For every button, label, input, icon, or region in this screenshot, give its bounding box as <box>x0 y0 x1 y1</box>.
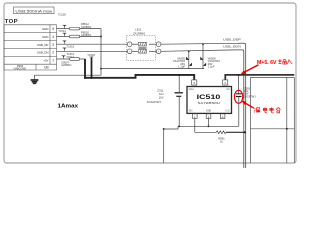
capacitor C581 <box>236 75 256 126</box>
regulator IC510 <box>187 87 232 114</box>
wire +5V thick bus (left) <box>85 59 194 80</box>
note box USB:500mA max <box>14 7 55 14</box>
ferrite bead FB502 <box>69 30 91 37</box>
node R to vertical <box>244 131 246 133</box>
svg-text:4: 4 <box>52 35 54 39</box>
choke coil upper <box>139 42 147 46</box>
pad circle right lower <box>156 49 161 54</box>
wire GND drop to frame <box>163 129 165 163</box>
svg-text:USB_DDN: USB_DDN <box>223 44 241 48</box>
annotation red text M+5.6V input <box>257 59 292 66</box>
node C511 bus tap <box>178 74 180 76</box>
wire USB_DP row <box>57 42 239 45</box>
svg-text:1.1pF: 1.1pF <box>208 65 215 69</box>
wire pin1 (ON) down to resistor line <box>194 119 196 133</box>
svg-text:TL515: TL515 <box>67 45 75 49</box>
wire +5.6V thick bus (right) <box>225 75 294 80</box>
svg-text:1Amax: 1Amax <box>58 103 79 109</box>
svg-text:C511: C511 <box>157 89 164 93</box>
node TL503 junction <box>90 77 92 79</box>
node GND rows join <box>100 36 102 38</box>
svg-text:USB:500mA max: USB:500mA max <box>15 9 52 13</box>
wire GND jog <box>164 126 178 129</box>
node pin2 GND join <box>208 125 210 127</box>
wire USB_DN corner down <box>236 50 244 168</box>
wire GND5 row <box>57 28 102 30</box>
pin 1 box (ON) <box>193 114 198 119</box>
pad circle right upper <box>156 42 161 47</box>
pin 4 box (Vin) <box>223 80 228 85</box>
choke core <box>139 46 147 49</box>
test point TL517 <box>62 55 75 59</box>
test point TL518 <box>58 13 66 29</box>
svg-text:Vout: Vout <box>189 88 194 91</box>
svg-text:N.C: N.C <box>226 110 230 113</box>
pad circle left lower <box>127 49 132 54</box>
node varistor VA505 tap <box>188 50 190 52</box>
varistor VA505 <box>173 51 192 68</box>
test point TL515 <box>63 41 75 49</box>
bead C8507 on +5V <box>61 58 80 67</box>
wire GND line A <box>178 125 239 127</box>
svg-text:ZA1R8WJ: ZA1R8WJ <box>133 31 146 35</box>
wire GND to ground symbol <box>35 75 102 79</box>
svg-text:A208WJ: A208WJ <box>81 25 92 29</box>
node C511 GND join <box>178 125 180 127</box>
svg-text:16V: 16V <box>159 96 164 100</box>
svg-text:NABOOWJ: NABOOWJ <box>14 68 27 71</box>
pin A box (N.C) <box>220 114 225 119</box>
svg-text:GND: GND <box>42 27 48 31</box>
node GND branch <box>100 68 102 70</box>
svg-text:5: 5 <box>52 27 54 31</box>
ground <box>31 80 39 83</box>
svg-text:3: 3 <box>52 43 54 47</box>
pin 5 box (Vout) <box>192 80 197 85</box>
svg-text:KOA237WJ: KOA237WJ <box>147 100 162 104</box>
svg-text:TL514: TL514 <box>58 29 66 33</box>
svg-text:TL503: TL503 <box>87 53 95 57</box>
wire GND join vertical <box>100 29 102 76</box>
refdes P903 NABOOWJ <box>14 64 27 71</box>
svg-text:+5V: +5V <box>43 59 48 63</box>
svg-text:GND: GND <box>42 35 48 39</box>
svg-text:1: 1 <box>52 59 54 63</box>
annotation red text leaky capacitor <box>254 107 281 113</box>
wire GND4 row <box>57 36 102 38</box>
node GND drop <box>163 128 165 130</box>
svg-text:S172B50U: S172B50U <box>198 101 221 105</box>
svg-text:1.1pF: 1.1pF <box>178 65 185 69</box>
node C581 tap <box>238 74 240 76</box>
svg-text:2: 2 <box>52 51 54 55</box>
resistor R5B1 <box>216 131 246 143</box>
svg-text:10u: 10u <box>159 92 164 96</box>
pin 2 box (GND) <box>206 114 211 119</box>
wire +5V row <box>57 58 86 60</box>
svg-text:A208WJ: A208WJ <box>61 63 72 67</box>
svg-text:A208WJ: A208WJ <box>81 33 92 37</box>
svg-text:TL518: TL518 <box>58 13 66 17</box>
svg-text:TOP: TOP <box>5 19 18 25</box>
ferrite bead FB512 <box>69 22 91 30</box>
annotation red ellipse around C581 <box>234 90 242 103</box>
capacitor C511 <box>147 75 183 126</box>
varistor VA508 <box>200 44 220 68</box>
choke L501 dashed outline <box>126 28 155 61</box>
pad circle left upper <box>127 42 132 47</box>
block boundary right box <box>251 77 295 163</box>
node right box junction <box>286 128 288 130</box>
svg-text:USB_DP: USB_DP <box>37 43 49 47</box>
node bus corner <box>84 77 86 79</box>
svg-text:M+5. 6V: M+5. 6V <box>257 60 277 66</box>
svg-text:2A237WJ: 2A237WJ <box>244 94 256 98</box>
wire pin2 (GND) down <box>208 119 210 127</box>
annotation red arrow to ellipse <box>241 101 254 108</box>
test point TL514 <box>58 29 66 36</box>
svg-text:GND: GND <box>206 110 212 113</box>
annotation red arrow to Vin bus <box>241 65 259 75</box>
test point TL503 <box>87 53 95 78</box>
test point TL516 <box>63 48 75 56</box>
choke coil lower <box>139 50 147 54</box>
svg-text:ON: ON <box>189 110 193 113</box>
node varistor VA508 tap <box>202 43 204 45</box>
connector P903 (USB) table <box>4 25 57 70</box>
svg-text:A: A <box>222 115 224 119</box>
svg-text:USB_DDP: USB_DDP <box>223 38 241 42</box>
svg-text:L501: L501 <box>135 28 141 32</box>
wire USB_DN row <box>57 50 237 51</box>
wire USB_DP corner down <box>238 43 246 168</box>
wire ON pin to resistor <box>195 131 216 133</box>
svg-text:UB: UB <box>44 65 49 69</box>
wire GND to varistors <box>101 68 204 70</box>
svg-text:USB_DN: USB_DN <box>37 51 49 55</box>
